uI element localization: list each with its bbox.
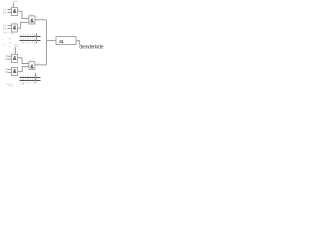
net label B4 (5, 70, 9, 74)
reference U1B (12, 23, 17, 25)
net label A4 (5, 67, 9, 71)
left margin text 3 (9, 42, 12, 44)
wire U2B output to U2C input (18, 67, 29, 72)
svg-text:8: 8 (36, 17, 38, 19)
wire input B2 to U1B (7, 28, 11, 30)
pin 8 U1C (36, 17, 38, 19)
wire input A3 to U2A (7, 55, 11, 57)
net label Y2 (36, 63, 39, 66)
lower overline bar 1 (20, 77, 41, 79)
svg-text:y: y (1, 39, 3, 41)
svg-text:nn: nn (9, 42, 12, 44)
svg-text:U2A: U2A (11, 51, 16, 54)
wire vertical through upper bars (35, 33, 37, 44)
svg-text:a.b c.d e.f g.h: a.b c.d e.f g.h (20, 41, 38, 44)
pin 14 label U1A (12, 5, 15, 7)
AND gate U1A (12, 8, 18, 16)
wire U3 output stub (76, 41, 79, 46)
lower annotation row between bars (20, 78, 38, 81)
wire input A2 to U1B (7, 25, 11, 27)
upper overline bar 1 (20, 36, 41, 38)
wire vertical through lower bars (34, 73, 36, 83)
svg-text:a.b c.d e.f g.h: a.b c.d e.f g.h (20, 37, 38, 40)
wire input A1 to U1A (7, 9, 11, 11)
upper annotation row below bar2 (20, 41, 38, 44)
wire VCC to U2A power pin (14, 47, 16, 54)
svg-text:VCC: VCC (14, 43, 20, 47)
pin 1 U1A (10, 8, 12, 10)
reference U2C (29, 60, 34, 62)
lower overline bar 2 (20, 80, 41, 82)
wire U1A output to U1C input (18, 11, 29, 18)
wire U1C output to node N1 (35, 19, 47, 21)
net label B1 (3, 10, 7, 14)
svg-text:B1: B1 (3, 10, 7, 14)
svg-text:rr: rr (12, 33, 14, 36)
lower annotation row above bar1 (20, 75, 38, 78)
svg-text:rr: rr (9, 46, 11, 49)
upper annotation row between bars (20, 37, 38, 40)
left margin text 4 (3, 44, 5, 46)
svg-text:VCC: VCC (12, 0, 18, 4)
AND gate U2A (12, 54, 18, 62)
bottom annotation text 1 (7, 84, 12, 86)
net label A1 (3, 7, 7, 11)
svg-text:2Y: 2Y (36, 63, 39, 66)
wire U2C output to node N2 (35, 64, 47, 66)
svg-text:&: & (30, 19, 34, 25)
wire VCC to U1A power pin (13, 3, 15, 8)
svg-text:&: & (30, 64, 34, 70)
svg-text:&: & (13, 56, 17, 62)
svg-text:e rm: e rm (9, 84, 14, 87)
lower annotation row below bar2 (20, 82, 38, 85)
left margin text 2 (9, 39, 11, 41)
wire U1B output to U1C input (18, 22, 29, 28)
svg-text:B3: B3 (5, 57, 9, 61)
pin 4 U1C (26, 19, 30, 21)
wire node N1 to U3 input (46, 40, 56, 42)
wire input A4 to U2B (7, 68, 11, 70)
svg-text:B2: B2 (3, 26, 7, 30)
power net VCC label (lower) (14, 43, 20, 47)
bottom annotation text 2 (9, 84, 14, 87)
pin 2 U1A (10, 11, 12, 13)
svg-text:drenderkrde: drenderkrde (79, 45, 103, 51)
AND gate U2C (29, 62, 35, 71)
svg-text:&: & (13, 69, 17, 75)
left margin text 1 (1, 39, 3, 41)
pin 14 label U2A (13, 49, 16, 51)
wire U2A output to U2C input (18, 58, 29, 64)
left margin text 5 (9, 46, 11, 49)
AND gate U1B (12, 24, 18, 32)
net label output (79, 45, 103, 51)
net label B2 (3, 26, 7, 30)
svg-text:14: 14 (12, 5, 15, 7)
svg-text:v vv: v vv (3, 32, 8, 34)
upper annotation text row A mid (9, 33, 13, 35)
wire input B1 to U1A (7, 12, 11, 14)
OR gate U3 (56, 37, 76, 45)
reference U1C (29, 14, 34, 16)
net label A2 (3, 23, 7, 27)
upper annotation text row A left (3, 32, 8, 34)
AND gate U1C (29, 16, 35, 25)
wire input B4 to U2B (7, 71, 11, 73)
svg-text:&: & (13, 9, 17, 15)
net label B3 (5, 57, 9, 61)
pin 3 U1A (18, 10, 20, 12)
svg-text:1Y: 1Y (41, 17, 44, 20)
net label A3 (5, 54, 9, 58)
svg-text:a.b c.d e.f g.h: a.b c.d e.f g.h (20, 33, 38, 36)
upper annotation row above bar1 (20, 33, 38, 36)
wire input B3 to U2A (7, 58, 11, 60)
svg-text:B4: B4 (5, 70, 9, 74)
svg-text:s: s (3, 44, 5, 46)
reference U2A (11, 51, 16, 54)
bottom annotation text 3 (22, 84, 25, 86)
AND gate U2B (12, 68, 18, 76)
power net VCC label (top) (12, 0, 18, 4)
wire trunk node N1 to node N2 (45, 20, 47, 65)
upper annotation text row A right (12, 33, 14, 36)
svg-text:&: & (13, 26, 17, 32)
svg-text:m: m (9, 39, 11, 41)
upper overline bar 2 (20, 40, 41, 42)
net label Y1 (41, 17, 44, 20)
